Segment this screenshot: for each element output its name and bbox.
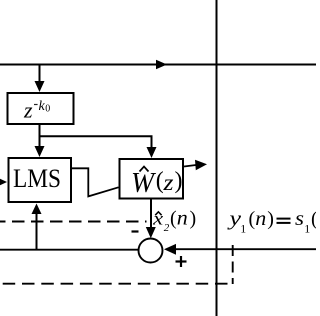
svg-text:y: y: [227, 208, 241, 230]
svg-text:x: x: [152, 208, 163, 228]
svg-text:0: 0: [45, 104, 50, 115]
svg-text:n: n: [177, 208, 188, 230]
svg-text:): ): [267, 208, 274, 230]
svg-text:z: z: [162, 170, 173, 195]
svg-text:1: 1: [240, 222, 246, 236]
svg-text:): ): [190, 208, 197, 230]
svg-text:n: n: [255, 208, 266, 230]
svg-text:2: 2: [164, 222, 170, 234]
svg-text:1: 1: [304, 222, 310, 236]
svg-text:z: z: [23, 98, 33, 123]
svg-text:): ): [175, 168, 183, 194]
svg-text:LMS: LMS: [13, 163, 61, 193]
svg-text:(: (: [311, 208, 316, 230]
svg-text:W: W: [131, 168, 157, 199]
svg-text:s: s: [295, 208, 304, 230]
